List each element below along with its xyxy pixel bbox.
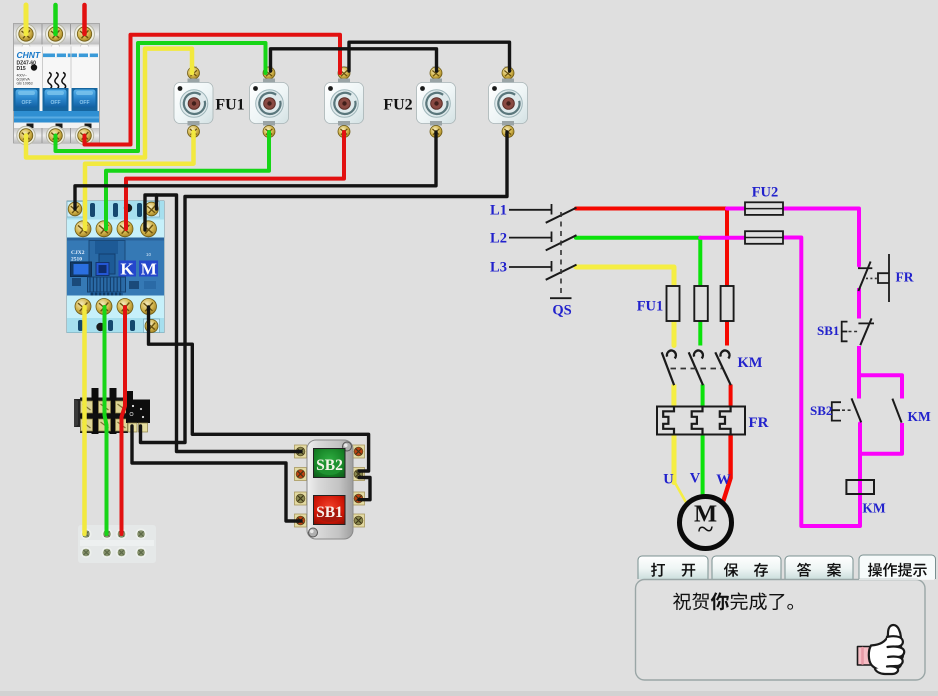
wire L3 supply red into QF (82, 5, 87, 34)
wire KM T2 to XT green (105, 307, 107, 534)
switch QS 3-pole (509, 204, 577, 298)
jumper SB1 to SB2 black (359, 478, 370, 500)
svg-text:GB 10963: GB 10963 (17, 82, 33, 86)
fuse FU1 pole 2 (250, 66, 289, 138)
svg-text:10: 10 (146, 252, 152, 257)
control wire magenta SB2 to KM coil to bottom (783, 238, 860, 527)
control wire magenta L1 tap to FU2 (727, 207, 746, 211)
circuit breaker QF CHNT DZ47-60 (14, 24, 100, 145)
wire yellow KM pole1 to FR pole1 (671, 385, 676, 408)
wire QF to FU1-2 green (56, 43, 266, 151)
svg-text:OFF: OFF (80, 100, 90, 106)
wire yellow to motor U thin (674, 481, 688, 505)
control wire magenta SB1 to SB2 (857, 346, 861, 399)
jumper KM A1 to aux 14 black (145, 195, 157, 230)
wire FU2-1 to KM aux 13 black (75, 132, 436, 209)
svg-text:SB1: SB1 (316, 504, 343, 521)
wire tap FU1-2 to FU2-1 black (271, 49, 437, 71)
svg-text:D15: D15 (17, 66, 26, 72)
fuse FU1 schematic (3 cartridges) (667, 286, 680, 321)
svg-text:M: M (141, 260, 157, 279)
fuse FU2 schematic (2 cartridges) (745, 202, 783, 215)
wire red drop to FU1a-3 and KM pole3 (725, 209, 729, 346)
FR NC contact (control) (858, 254, 889, 302)
wire red FR to motor W (724, 434, 731, 501)
contactor KM main contacts (662, 351, 731, 386)
thumbs-up icon (858, 625, 905, 674)
contactor KM (CJX2-2510) (67, 201, 164, 333)
wire green KM pole2 to FR pole2 (701, 385, 705, 408)
svg-text:K: K (120, 260, 134, 279)
svg-text:SB2: SB2 (316, 457, 343, 474)
svg-text:L1: L1 (490, 203, 507, 219)
KM coil (846, 480, 874, 494)
stop button SB1 NC contact (842, 318, 874, 345)
wire green FR to motor V (701, 434, 705, 499)
button tab 操作提示 (active) (859, 555, 936, 579)
fuse FU2 pole 2 (489, 66, 528, 138)
wire L1 supply yellow into QF (24, 5, 29, 34)
wire yellow FR down (672, 434, 677, 483)
control wire magenta branch to KM aux (859, 375, 902, 398)
control wire magenta L2 tap to FU2-2 (700, 236, 746, 240)
svg-text:OFF: OFF (51, 100, 61, 106)
wire QF to FU1-3 red (85, 35, 341, 145)
button tab 打开 (638, 556, 708, 579)
svg-text:FR: FR (896, 270, 914, 285)
thermal relay FR heater box (657, 407, 745, 435)
wire KM aux 14 to SB2 terminal black (149, 307, 369, 471)
svg-text:KM: KM (862, 501, 886, 516)
message panel (636, 580, 926, 681)
wire FU2-2 to FR 95 black (141, 132, 508, 443)
svg-text:~: ~ (697, 513, 713, 546)
wire L2 phase green (576, 236, 700, 240)
control wire magenta KM aux return (862, 423, 902, 454)
wire tap FU1-3 to FU2-2 black (349, 42, 510, 71)
fuse FU2 pole 1 (417, 66, 456, 138)
control wire magenta FR to SB1 (857, 288, 861, 319)
push button station SB1 SB2 (295, 440, 365, 539)
svg-text:QS: QS (552, 303, 571, 319)
svg-text:KM: KM (738, 355, 763, 371)
thermal overload relay FR (74, 388, 150, 434)
svg-text:SB2: SB2 (810, 403, 832, 418)
wire L1 phase red (576, 207, 729, 211)
svg-text:SB1: SB1 (817, 323, 839, 338)
svg-text:FU1: FU1 (215, 97, 244, 114)
svg-text:FR: FR (749, 415, 769, 431)
motor M (680, 497, 732, 549)
svg-text:FU1: FU1 (637, 299, 664, 315)
svg-text:V: V (690, 471, 701, 487)
svg-text:U: U (663, 472, 674, 488)
svg-text:W: W (716, 472, 731, 488)
svg-text:L2: L2 (490, 230, 507, 246)
button tab 保存 (712, 556, 781, 579)
wire KM T3 to XT red (122, 307, 126, 534)
svg-text:L3: L3 (490, 260, 507, 276)
terminal strip XT (78, 525, 156, 563)
wire L2 supply green into QF (53, 5, 58, 34)
svg-text:FU2: FU2 (383, 97, 412, 114)
wire FU1-2 to KM L2 green (106, 132, 269, 229)
KM auxiliary NO contact (892, 399, 901, 423)
button tab 答案 (785, 556, 853, 579)
svg-text:CJX2: CJX2 (71, 250, 85, 256)
wire FR 96 to SB1 terminal black (132, 426, 301, 521)
wire KM A1 to SB1 terminal black (157, 195, 302, 452)
wire FU1-1 to KM L1 yellow (85, 132, 194, 229)
fuse FU1 pole 3 (325, 66, 364, 138)
wire QF to FU1-1 yellow (26, 49, 192, 158)
wire red KM pole3 to FR pole3 (729, 385, 733, 408)
svg-text:KM: KM (908, 409, 932, 424)
svg-text:OFF: OFF (22, 100, 32, 106)
svg-text:CHNT: CHNT (17, 50, 41, 60)
wire L3 phase yellow (576, 267, 674, 346)
wire FU1-3 to KM L3 red (126, 132, 344, 229)
wire KM T1 to XT yellow (82, 307, 87, 534)
control wire magenta FU2-1 to FR contact (782, 209, 859, 266)
fuse FU1 pole 1 (174, 66, 213, 138)
wire green drop to FU1a-2 and KM pole2 (698, 238, 702, 346)
start button SB2 NO contact (832, 398, 861, 422)
message text 祝贺你完成了。 (673, 593, 691, 611)
svg-text:FU2: FU2 (752, 184, 779, 200)
